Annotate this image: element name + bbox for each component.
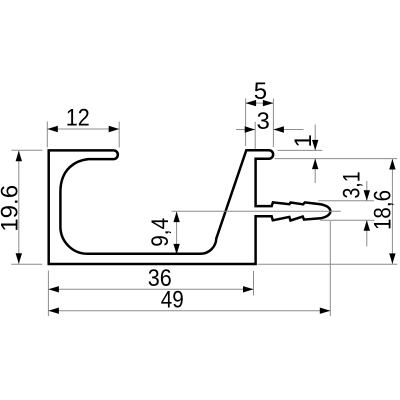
svg-text:3: 3 bbox=[257, 108, 270, 135]
extension line top for dim 1 bbox=[278, 149, 323, 151]
svg-text:9,4: 9,4 bbox=[147, 218, 174, 247]
dimension line 19.6 bbox=[18, 151, 20, 264]
extension line left of dim 12 bbox=[46, 122, 48, 148]
svg-text:1: 1 bbox=[290, 134, 317, 147]
extension line top for dim 3,1 bbox=[318, 200, 374, 202]
centerline of barbed arm / extension for dim 9,4 bbox=[172, 210, 341, 212]
extension line top for dim 19.6 bbox=[12, 149, 43, 151]
profile outline of extrusion cross-section bbox=[49, 150, 331, 264]
extension line bottom for dim 19.6 bbox=[11, 263, 42, 265]
svg-text:19.6: 19.6 bbox=[0, 185, 23, 232]
dimension line 3,1 with outside arrows bbox=[366, 181, 368, 201]
long extension line shared by dims 1 and 18,6 bbox=[275, 158, 398, 160]
extension line right of dim 12 bbox=[118, 122, 120, 148]
dimension line 36 bbox=[48, 288, 253, 290]
extension line left of dim 5 bbox=[245, 99, 247, 147]
dimension line 9,4 bbox=[176, 212, 178, 254]
dimension line 18,6 bbox=[391, 159, 393, 264]
dimension line 49 bbox=[48, 310, 330, 312]
extension line bottom for dim 3,1 bbox=[320, 219, 374, 221]
dimension line 1 with outside arrows bbox=[314, 125, 316, 151]
svg-text:18,6: 18,6 bbox=[370, 190, 397, 230]
svg-text:49: 49 bbox=[161, 287, 184, 314]
extension line left of dim 3 bbox=[254, 122, 256, 150]
extension line right for dim 49 (from barb tip) bbox=[329, 221, 331, 316]
extension line right shared by dims 5 and 3 bbox=[272, 99, 274, 148]
svg-text:5: 5 bbox=[254, 78, 267, 105]
extension line left shared by dims 36 and 49 bbox=[47, 271, 49, 317]
svg-text:12: 12 bbox=[66, 105, 90, 132]
dimension line 5 bbox=[246, 102, 274, 104]
extension line right for dim 36 bbox=[253, 271, 255, 296]
dimension line 12 bbox=[47, 128, 119, 130]
extension line bottom-right for dim 18,6 bbox=[258, 263, 398, 265]
dimension line 3 with outside arrows bbox=[236, 129, 255, 131]
svg-text:3,1: 3,1 bbox=[339, 172, 366, 199]
